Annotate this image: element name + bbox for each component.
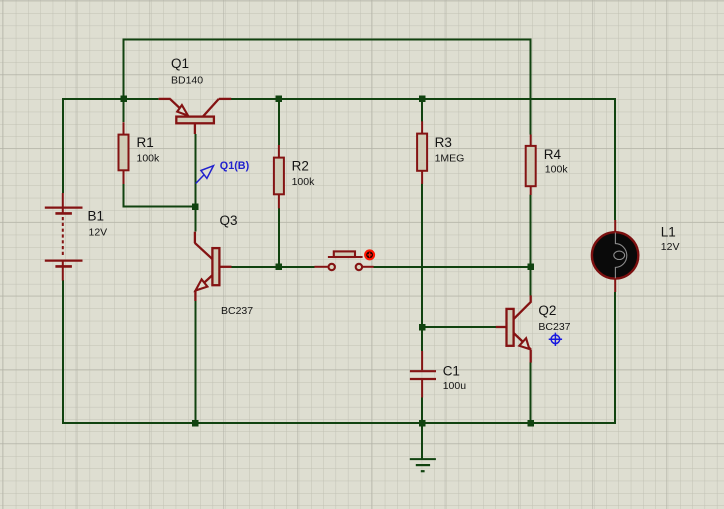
svg-text:R4: R4 (544, 147, 562, 162)
wire: R4 bottom to Q2 collector (530, 195, 532, 296)
wire: R3 bottom down to Q2 base node (421, 184, 423, 328)
junction node at R4 column / switch row (527, 264, 534, 271)
wire: left drop from top rail to R1 (123, 38, 125, 122)
Q1 emitter arrow (177, 105, 188, 116)
wire: Q2 emitter to bottom rail (530, 362, 532, 423)
resistor R1 (119, 122, 129, 184)
wire: Q3 base row to switch (232, 266, 315, 268)
svg-text:12V: 12V (661, 241, 680, 253)
wire: C1 node down (421, 327, 423, 351)
red actuation dot of switch (364, 249, 375, 260)
wire: Q1 base down to Q3 collector (194, 134, 196, 232)
svg-text:R3: R3 (435, 135, 452, 150)
svg-text:100k: 100k (545, 164, 569, 176)
svg-text:100k: 100k (292, 176, 316, 188)
wire: battery column upper (62, 98, 64, 193)
junction node at C1 top / Q2 base (419, 324, 426, 331)
wire: battery column lower (62, 280, 64, 424)
junction node at Q3 emitter / bottom rail (192, 420, 199, 427)
transistor Q3 (NPN BC237) (195, 232, 232, 301)
wire: lamp column top (614, 98, 616, 220)
push button switch (314, 251, 373, 270)
voltage probe Q1(B) (196, 166, 214, 184)
svg-text:BC237: BC237 (538, 321, 570, 333)
Q2 emitter arrow (519, 338, 529, 349)
wire: C1 bottom to bottom rail (421, 398, 423, 424)
svg-text:Q2: Q2 (538, 303, 556, 318)
origin marker near Q2 (549, 333, 562, 346)
resistor R3 (417, 121, 427, 184)
wire: Q3 emitter column to bottom rail (194, 301, 196, 423)
resistor R2 (274, 145, 284, 208)
junction node at ground / bottom rail (419, 420, 426, 427)
svg-text:100u: 100u (443, 380, 467, 392)
svg-text:BC237: BC237 (221, 305, 253, 317)
wire: top rail horizontal (63, 38, 616, 459)
junction node at R2 top / rail (276, 96, 283, 103)
Q3 emitter arrow (196, 279, 208, 290)
junction node at R1 bottom / Q3 base column (192, 203, 199, 210)
wire: R3 column top (421, 98, 423, 121)
junction node at R1 top / rail (120, 96, 534, 427)
svg-text:Q3: Q3 (220, 213, 238, 228)
wire: R2 column bottom (278, 208, 280, 267)
lamp L1 (592, 220, 638, 292)
wire: main rail segment left (battery to Q1 emitter) (63, 98, 159, 100)
svg-text:1MEG: 1MEG (435, 153, 465, 165)
transistor Q1 (PNP BD140) (159, 99, 232, 134)
wire: switch to R4 column row (374, 266, 531, 268)
svg-text:L1: L1 (661, 225, 676, 240)
svg-text:B1: B1 (88, 208, 105, 223)
junction node at Q2 emitter / bottom rail (527, 420, 534, 427)
svg-text:Q1(B): Q1(B) (220, 160, 250, 172)
wire: bottom rail (63, 422, 616, 424)
svg-text:Q1: Q1 (171, 56, 189, 71)
svg-text:100k: 100k (137, 153, 161, 165)
svg-text:C1: C1 (443, 364, 460, 379)
capacitor C1 (410, 351, 436, 398)
junction node at R3 top / rail (419, 96, 426, 103)
svg-text:12V: 12V (89, 227, 108, 239)
wire: top rail right drop to R4 (530, 38, 532, 134)
ground (410, 459, 436, 471)
transistor Q2 (NPN BC237) (496, 295, 531, 362)
svg-text:BD140: BD140 (171, 75, 203, 87)
wire: main rail segment right (Q1 collector to lamp corner) (231, 98, 616, 100)
wire: lamp column bottom (614, 292, 616, 424)
wire: R1 bottom to Q3 base column (123, 184, 196, 207)
junction node at R2 bottom / switch row (276, 264, 283, 271)
svg-text:R2: R2 (292, 159, 309, 174)
wire: Q2 base row (422, 326, 496, 328)
battery B1 (45, 193, 83, 281)
svg-text:R1: R1 (137, 135, 154, 150)
wire: R2 column top (278, 98, 280, 145)
wire: ground stem (421, 423, 423, 459)
resistor R4 (526, 135, 536, 196)
